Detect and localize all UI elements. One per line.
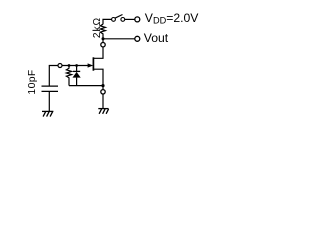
svg-text:VDD=2.0V: VDD=2.0V [145, 11, 199, 26]
svg-text:10pF: 10pF [27, 69, 38, 94]
svg-text:Vout: Vout [144, 31, 169, 45]
svg-text:2kΩ: 2kΩ [92, 17, 103, 38]
